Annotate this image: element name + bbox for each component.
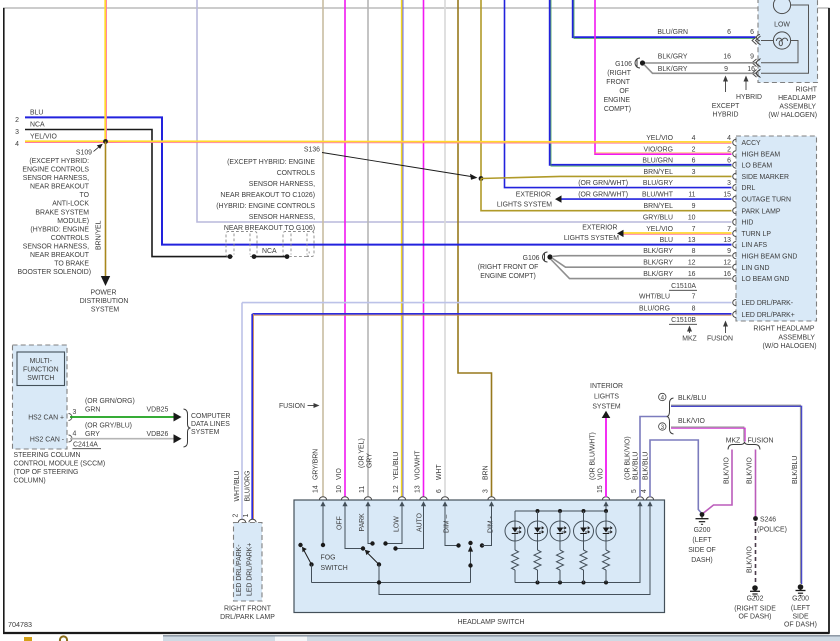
- svg-text:DRL: DRL: [742, 185, 756, 192]
- dimmer left contact from pin 6: [445, 504, 458, 546]
- svg-text:TO: TO: [80, 192, 90, 199]
- svg-text:BLK/GRY: BLK/GRY: [643, 260, 673, 267]
- svg-text:ENGINE: ENGINE: [604, 97, 631, 104]
- svg-text:BRN/YEL: BRN/YEL: [644, 169, 674, 176]
- page frame top border: [3, 7, 830, 9]
- svg-text:C1510B: C1510B: [671, 317, 696, 324]
- high beam bulb (cut off at top): [773, 0, 790, 14]
- arrow GRN to computer data lines: [174, 413, 182, 422]
- wire BLU from pin 2 to LIN AFS: [25, 117, 732, 244]
- svg-text:GRY: GRY: [367, 453, 374, 468]
- connector arc HS2 CAN -: [69, 435, 73, 442]
- svg-text:3: 3: [483, 489, 490, 493]
- svg-text:SYSTEM: SYSTEM: [91, 307, 120, 314]
- wire BLU/GRY vertical to DRL row: [505, 0, 732, 188]
- svg-text:WHT: WHT: [436, 464, 443, 480]
- svg-text:BLU: BLU: [660, 237, 673, 244]
- wire YEL/BLU vertical to headlamp switch pin 12: [401, 0, 403, 497]
- common rail 1: [312, 582, 471, 584]
- svg-text:BLK/GRY: BLK/GRY: [643, 248, 673, 255]
- ground G200 left label: [688, 527, 716, 564]
- svg-text:EXCEPT: EXCEPT: [712, 103, 740, 110]
- svg-text:HEADLAMP: HEADLAMP: [778, 95, 816, 102]
- ground G200 right label: [784, 596, 817, 629]
- svg-text:(RIGHT SIDE: (RIGHT SIDE: [734, 606, 776, 613]
- svg-text:BLK/BLU: BLK/BLU: [643, 452, 650, 480]
- svg-text:LOW: LOW: [394, 516, 401, 532]
- wire VIO/ORG vertical to HIGH BEAM row: [595, 0, 732, 154]
- svg-text:LIN GND: LIN GND: [742, 265, 770, 272]
- wire BLK/VIO dashed police to G202: [755, 522, 757, 584]
- svg-text:(POLICE): (POLICE): [757, 527, 787, 534]
- svg-text:3: 3: [15, 129, 19, 136]
- svg-text:LIGHTS SYSTEM: LIGHTS SYSTEM: [497, 202, 552, 209]
- svg-text:BLK/GRY: BLK/GRY: [643, 271, 673, 278]
- wire BLU/ORG vertical to drl/park lamp: [251, 314, 253, 519]
- svg-text:DASH): DASH): [691, 557, 712, 564]
- svg-text:MKZ: MKZ: [682, 336, 697, 343]
- svg-text:BOOSTER SOLENOID): BOOSTER SOLENOID): [17, 269, 91, 276]
- svg-text:NCA: NCA: [30, 122, 45, 129]
- FUSION variant pointer at GRY/BRN wire: [279, 403, 320, 410]
- wire GRN: [70, 416, 174, 418]
- svg-text:POWER: POWER: [90, 290, 116, 297]
- svg-text:G200: G200: [694, 527, 711, 534]
- wire inside box high bulb to conn16: [761, 5, 809, 73]
- svg-text:VDB26: VDB26: [147, 431, 169, 438]
- svg-text:INTERIOR: INTERIOR: [590, 383, 623, 390]
- arrow to power distribution system: [101, 276, 110, 286]
- page frame bottom border: [3, 632, 830, 634]
- circled 3 label: [659, 423, 666, 431]
- svg-text:(OR BLU/WHT): (OR BLU/WHT): [590, 432, 597, 480]
- ground G106 (lower) symbol: [543, 252, 553, 262]
- wire BLU/WHT outage turn row: [562, 198, 732, 200]
- fog switch to common rail: [311, 565, 313, 583]
- low beam bulb: [773, 32, 790, 49]
- svg-text:9: 9: [727, 248, 731, 255]
- svg-text:LIN AFS: LIN AFS: [742, 242, 768, 249]
- connector arc HS2 CAN +: [69, 414, 73, 421]
- wire BLU/GRN vertical to LO BEAM row: [550, 0, 732, 165]
- svg-text:10: 10: [336, 485, 343, 493]
- pin numbers column 1: [688, 135, 696, 312]
- svg-text:11: 11: [688, 192, 695, 199]
- svg-text:12: 12: [723, 260, 731, 267]
- svg-text:(RIGHT: (RIGHT: [607, 70, 632, 77]
- main switch pivot to rails: [379, 504, 650, 595]
- wire BRN/YEL from S136 to SIDE MARKER: [481, 176, 732, 178]
- NCA wire terminal dot 2: [252, 254, 257, 259]
- wire GRY (OR YEL) vertical to headlamp switch pin 11: [367, 0, 369, 497]
- svg-text:BLK/VIO: BLK/VIO: [724, 457, 731, 484]
- svg-text:6: 6: [436, 489, 443, 493]
- svg-text:SIDE OF: SIDE OF: [688, 547, 716, 554]
- svg-text:(LEFT: (LEFT: [791, 605, 811, 612]
- svg-text:LO BEAM GND: LO BEAM GND: [742, 276, 790, 283]
- svg-text:NCA: NCA: [262, 248, 277, 255]
- svg-text:4: 4: [15, 141, 19, 148]
- svg-text:OFF: OFF: [337, 516, 344, 530]
- FOG SWITCH label: [321, 555, 348, 573]
- svg-text:ASSEMBLY: ASSEMBLY: [779, 104, 816, 111]
- svg-text:OF: OF: [619, 88, 629, 95]
- svg-text:(HYBRID: ENGINE CONTROLS: (HYBRID: ENGINE CONTROLS: [216, 203, 315, 210]
- svg-text:COMPUTER: COMPUTER: [191, 413, 230, 420]
- connector pin name labels inside box: [742, 140, 798, 319]
- svg-text:NEAR BREAKOUT TO C1026): NEAR BREAKOUT TO C1026): [220, 192, 315, 199]
- svg-text:13: 13: [415, 485, 422, 493]
- svg-text:3: 3: [692, 169, 696, 176]
- svg-text:8: 8: [692, 248, 696, 255]
- svg-text:2: 2: [232, 514, 239, 518]
- svg-text:FRONT: FRONT: [606, 79, 631, 86]
- svg-text:(TOP OF STEERING: (TOP OF STEERING: [14, 469, 79, 476]
- main switch PARK contact from pin 11: [368, 504, 372, 544]
- headlamp switch box: [294, 500, 665, 613]
- svg-text:16: 16: [688, 271, 696, 278]
- svg-text:(OR GRN/WHT): (OR GRN/WHT): [578, 180, 628, 187]
- wire GRN labels: [85, 398, 169, 414]
- svg-text:6: 6: [750, 29, 754, 36]
- LED lamp 4: [574, 511, 594, 583]
- splice S246 dot: [753, 516, 758, 521]
- NCA wire terminal dot 3: [285, 254, 290, 259]
- computer data lines system label: [191, 413, 230, 436]
- svg-text:4: 4: [661, 395, 665, 402]
- ground G202 symbol: [750, 585, 760, 596]
- G106 top label block: [604, 61, 633, 113]
- svg-text:LED DRL/PARK+: LED DRL/PARK+: [742, 312, 795, 319]
- bottom ui strip: [163, 636, 840, 641]
- svg-text:ACCY: ACCY: [742, 140, 762, 147]
- svg-text:TURN LP: TURN LP: [742, 231, 772, 238]
- svg-text:CONTROL MODULE (SCCM): CONTROL MODULE (SCCM): [14, 461, 106, 468]
- exterior lights system label 1: [497, 192, 552, 209]
- svg-text:BLU/GRY: BLU/GRY: [643, 180, 674, 187]
- wire BLK/GRY G106 diagonal to halogen pin 16: [644, 65, 756, 74]
- svg-text:15: 15: [597, 485, 604, 493]
- right front drl/park lamp dashed box: [234, 523, 263, 602]
- exterior lights system arrow (outage turn): [555, 195, 562, 202]
- svg-text:HYBRID: HYBRID: [736, 94, 762, 101]
- svg-text:OUTAGE TURN: OUTAGE TURN: [742, 197, 792, 204]
- svg-text:PARK LAMP: PARK LAMP: [742, 208, 781, 215]
- svg-text:(OR GRY/BLU): (OR GRY/BLU): [85, 423, 132, 430]
- ground G200 left symbol: [696, 512, 709, 524]
- svg-text:CONTROLS: CONTROLS: [51, 235, 90, 242]
- svg-text:AUTO: AUTO: [417, 512, 424, 532]
- svg-text:RIGHT FRONT: RIGHT FRONT: [224, 606, 272, 613]
- svg-text:S136: S136: [304, 147, 320, 154]
- svg-text:12: 12: [393, 485, 400, 493]
- LED lamp 1: [505, 511, 525, 583]
- svg-text:7: 7: [692, 226, 696, 233]
- wire WHT/BLU row to LED DRL/PARK-: [242, 302, 732, 304]
- wire BRN/YEL vertical to splice S136: [480, 0, 482, 179]
- dimmer pole: [468, 541, 473, 583]
- svg-text:9: 9: [692, 203, 696, 210]
- LED bottom rail to pin 5: [515, 504, 640, 583]
- svg-text:ASSEMBLY: ASSEMBLY: [778, 334, 815, 341]
- svg-text:LO BEAM: LO BEAM: [742, 163, 773, 170]
- svg-text:BRN: BRN: [483, 465, 490, 480]
- wire BLK/VIO MKZ branch to ground G200 left: [703, 450, 733, 514]
- svg-text:13: 13: [688, 237, 696, 244]
- svg-text:LED DRL/PARK-: LED DRL/PARK-: [742, 300, 794, 307]
- svg-text:EXTERIOR: EXTERIOR: [582, 224, 617, 231]
- svg-text:HEADLAMP SWITCH: HEADLAMP SWITCH: [458, 619, 525, 626]
- MKZ variant arrow: [682, 326, 697, 343]
- svg-text:VIO: VIO: [598, 467, 605, 480]
- svg-text:VDB25: VDB25: [147, 407, 169, 414]
- wire BLK/GRY to LO BEAM GND: [551, 260, 732, 279]
- svg-text:FUSION: FUSION: [707, 336, 733, 343]
- brace computer data lines: [184, 409, 191, 447]
- svg-text:2: 2: [727, 146, 731, 153]
- svg-text:G200: G200: [792, 596, 809, 603]
- connector arcs halogen box: [752, 35, 760, 78]
- svg-text:(EXCEPT HYBRID:: (EXCEPT HYBRID:: [29, 158, 89, 165]
- svg-text:STEERING COLUMN: STEERING COLUMN: [14, 452, 81, 459]
- svg-text:VIO/ORG: VIO/ORG: [644, 146, 673, 153]
- svg-text:SENSOR HARNESS,: SENSOR HARNESS,: [23, 244, 89, 251]
- svg-text:(OR YEL): (OR YEL): [359, 438, 366, 468]
- svg-text:DATA LINES: DATA LINES: [191, 421, 230, 428]
- hybrid arrow except hybrid: [725, 77, 727, 92]
- headlamp switch rotated wire name labels: [313, 432, 650, 480]
- svg-text:S109: S109: [76, 150, 92, 157]
- svg-text:ENGINE CONTROLS: ENGINE CONTROLS: [22, 167, 89, 174]
- svg-text:S246: S246: [760, 517, 776, 524]
- svg-text:BRN/YEL: BRN/YEL: [96, 220, 103, 250]
- S246 (POLICE) label: [757, 517, 787, 534]
- svg-text:BLK/VIO: BLK/VIO: [747, 546, 754, 573]
- svg-text:BRAKE SYSTEM: BRAKE SYSTEM: [35, 209, 89, 216]
- svg-text:(OR GRN/ORG): (OR GRN/ORG): [85, 398, 135, 405]
- wire WHT/BLU vertical to drl/park lamp: [241, 303, 243, 519]
- svg-text:HIGH BEAM GND: HIGH BEAM GND: [742, 253, 798, 260]
- svg-text:G106: G106: [615, 61, 632, 68]
- wire BLK/GRY to LIN GND: [552, 258, 732, 267]
- wire BLU/ORG row to LED DRL/PARK+: [253, 313, 732, 315]
- wire inside box low bulb to conn9: [761, 41, 798, 63]
- svg-text:BLK/BLU: BLK/BLU: [678, 395, 706, 402]
- splice S109 junction dot: [103, 139, 108, 144]
- wire BRN/YEL below S109: [105, 142, 107, 278]
- bottom toolbar icon 1: [24, 637, 32, 641]
- svg-text:OF DASH): OF DASH): [739, 614, 772, 621]
- svg-text:YEL/VIO: YEL/VIO: [30, 134, 57, 141]
- fog switch terminal: [298, 543, 302, 547]
- svg-text:WHT/BLU: WHT/BLU: [639, 294, 670, 301]
- wire name labels left of connector: [578, 135, 674, 312]
- svg-text:5: 5: [631, 489, 638, 493]
- dimmer right contact to pin 3: [480, 504, 492, 548]
- svg-text:OF DASH): OF DASH): [784, 622, 817, 629]
- svg-text:HID: HID: [742, 220, 754, 227]
- svg-text:YEL/VIO: YEL/VIO: [646, 226, 673, 233]
- svg-text:LIGHTS SYSTEM: LIGHTS SYSTEM: [564, 235, 619, 242]
- wire BLU/GRN vertical to halogen LO BEAM: [573, 0, 756, 37]
- wire NCA black: [25, 130, 230, 257]
- arrow GRY to computer data lines: [174, 434, 182, 443]
- svg-text:SIDE: SIDE: [792, 614, 808, 621]
- splice S136 junction dot: [479, 176, 484, 181]
- svg-text:FUSION: FUSION: [747, 438, 773, 445]
- svg-text:2: 2: [692, 146, 696, 153]
- NCA dashed stub end: [289, 252, 309, 257]
- svg-text:7: 7: [727, 226, 731, 233]
- LED lamp 3: [550, 511, 570, 583]
- svg-text:VIO/WHT: VIO/WHT: [415, 450, 422, 480]
- svg-text:VIO: VIO: [336, 467, 343, 480]
- main switch arm: [365, 550, 381, 567]
- steering column control module dashed box: [13, 345, 68, 449]
- NCA wire segment between connectors: [254, 256, 287, 258]
- svg-text:NEAR BREAKOUT: NEAR BREAKOUT: [30, 184, 90, 191]
- svg-text:(HYBRID: ENGINE: (HYBRID: ENGINE: [30, 226, 89, 233]
- S136 label block: [216, 147, 320, 233]
- wire GRY/BRN vertical to headlamp switch pin 14: [322, 0, 324, 497]
- svg-text:DISTRIBUTION: DISTRIBUTION: [80, 298, 129, 305]
- fog switch arm: [302, 547, 314, 567]
- steering column control module label: [14, 452, 106, 485]
- svg-text:4: 4: [692, 135, 696, 142]
- headlamp switch connector entry arrows: [320, 501, 652, 506]
- svg-text:FOG: FOG: [321, 555, 336, 562]
- svg-text:HYBRID: HYBRID: [712, 112, 738, 119]
- svg-text:SWITCH: SWITCH: [27, 375, 54, 382]
- connector C1510B label: [669, 317, 697, 324]
- headlamp switch rotated pin labels: [313, 485, 649, 493]
- pin numbers column 2: [723, 135, 731, 278]
- svg-text:ANTI-LOCK: ANTI-LOCK: [52, 201, 89, 208]
- svg-text:16: 16: [747, 66, 755, 73]
- svg-text:704783: 704783: [8, 620, 32, 629]
- page frame right border: [828, 8, 830, 634]
- svg-text:BLU/WHT: BLU/WHT: [642, 192, 674, 199]
- svg-text:9: 9: [724, 66, 728, 73]
- svg-text:LED DRL/PARK+: LED DRL/PARK+: [247, 543, 254, 596]
- LED top rail from pin 15: [515, 504, 606, 511]
- page frame left border: [3, 8, 5, 634]
- svg-text:SENSOR HARNESS,: SENSOR HARNESS,: [249, 181, 315, 188]
- wire BLK/VIO circled 3 run to MKZ FUSION brace: [671, 427, 744, 442]
- svg-text:BLK/BLU: BLK/BLU: [792, 456, 799, 484]
- wire BLK/BLU pin 4 to ground G200 left: [650, 440, 702, 514]
- svg-text:GRN: GRN: [85, 407, 100, 414]
- svg-text:COLUMN): COLUMN): [14, 478, 46, 485]
- svg-text:12: 12: [688, 260, 696, 267]
- wire WHT vertical to headlamp switch pin 6: [444, 0, 446, 497]
- exterior lights system label 2: [564, 224, 619, 242]
- svg-text:3: 3: [661, 424, 665, 431]
- circled 4 label: [659, 393, 666, 401]
- svg-text:NEAR BREAKOUT TO G106): NEAR BREAKOUT TO G106): [224, 225, 315, 232]
- svg-text:SIDE MARKER: SIDE MARKER: [742, 174, 790, 181]
- svg-text:4: 4: [641, 489, 648, 493]
- bottom toolbar icon 2: [60, 636, 67, 641]
- svg-text:LOW: LOW: [774, 22, 790, 29]
- right headlamp assembly (w/ halogen) label: [768, 87, 817, 120]
- svg-text:15: 15: [723, 192, 731, 199]
- svg-text:FUNCTION: FUNCTION: [23, 367, 59, 374]
- svg-text:MKZ: MKZ: [726, 438, 741, 445]
- S109 label block: [17, 150, 92, 277]
- right headlamp assembly (w/ halogen) box: [758, 0, 818, 83]
- exterior lights system arrow (turn lp): [617, 230, 624, 237]
- svg-text:6: 6: [727, 158, 731, 165]
- connector C1510A label: [669, 283, 697, 290]
- wire inside box conn6 to low bulb: [761, 40, 773, 42]
- main switch AUTO contact from pin 13: [396, 504, 424, 549]
- svg-text:SENSOR HARNESS,: SENSOR HARNESS,: [23, 175, 89, 182]
- svg-text:HIGH BEAM: HIGH BEAM: [742, 151, 781, 158]
- svg-text:4: 4: [73, 431, 77, 438]
- power distribution system label: [80, 290, 129, 314]
- svg-text:(LEFT: (LEFT: [692, 537, 712, 544]
- svg-text:BLU/GRN: BLU/GRN: [657, 29, 688, 36]
- LED lamp 5: [596, 511, 616, 583]
- wire BLK/BLU circled 4 run to ground G200 right: [671, 405, 800, 583]
- svg-text:BLU/GRN: BLU/GRN: [642, 158, 673, 165]
- svg-text:G202: G202: [747, 596, 764, 603]
- svg-text:CONTROLS: CONTROLS: [277, 170, 316, 177]
- svg-text:11: 11: [359, 486, 366, 493]
- svg-text:RIGHT: RIGHT: [796, 87, 818, 94]
- right front drl/park lamp label: [220, 606, 275, 622]
- svg-text:HS2 CAN -: HS2 CAN -: [30, 437, 64, 444]
- svg-text:3: 3: [727, 180, 731, 187]
- svg-text:LED DRL/PARK-: LED DRL/PARK-: [236, 544, 243, 596]
- svg-text:GRY/BLU: GRY/BLU: [643, 215, 673, 222]
- headlamp switch connector arcs: [319, 497, 653, 500]
- G106 lower label block: [478, 255, 540, 280]
- svg-text:(OR GRN/WHT): (OR GRN/WHT): [578, 192, 628, 199]
- svg-text:BLK/GRY: BLK/GRY: [658, 54, 688, 61]
- svg-text:BLK/GRY: BLK/GRY: [658, 66, 688, 73]
- interior lights system label: [590, 383, 623, 411]
- wire YEL/VIO turn lp row: [624, 232, 732, 234]
- main switch common feed from pin 10: [345, 504, 363, 549]
- svg-text:(W/O HALOGEN): (W/O HALOGEN): [763, 343, 817, 350]
- switch position rotated labels: [337, 512, 495, 533]
- multi-function switch label: [23, 358, 59, 382]
- connector arcs main box: [733, 139, 737, 317]
- svg-text:MULTI-: MULTI-: [30, 358, 52, 365]
- wire VIO to interior lights system: [605, 418, 607, 497]
- right headlamp assembly (w/o halogen) connector box: [736, 136, 817, 321]
- S136 leader line with arrow: [322, 153, 471, 177]
- wire GRY labels: [85, 423, 169, 439]
- ground G106 (top) symbol: [635, 58, 645, 68]
- svg-text:PARK: PARK: [359, 513, 366, 532]
- svg-text:SYSTEM: SYSTEM: [191, 429, 220, 436]
- inline connector symbol 2 (NCA): [283, 232, 314, 257]
- svg-text:GRY/BRN: GRY/BRN: [313, 449, 320, 480]
- main switch LOW contact from pin 12: [386, 504, 402, 544]
- svg-text:1: 1: [243, 514, 250, 518]
- svg-text:BLU/ORG: BLU/ORG: [639, 305, 670, 312]
- brace splitting pin 5 wire: [667, 398, 674, 434]
- wire BLK/BLU pin 5 up to brace: [640, 417, 668, 498]
- svg-text:SWITCH: SWITCH: [321, 565, 348, 572]
- FUSION variant arrow: [707, 321, 733, 343]
- svg-text:BLK/VIO: BLK/VIO: [747, 457, 754, 484]
- wire YEL/VIO vertical above splice S109: [104, 0, 106, 142]
- svg-text:6: 6: [727, 29, 731, 36]
